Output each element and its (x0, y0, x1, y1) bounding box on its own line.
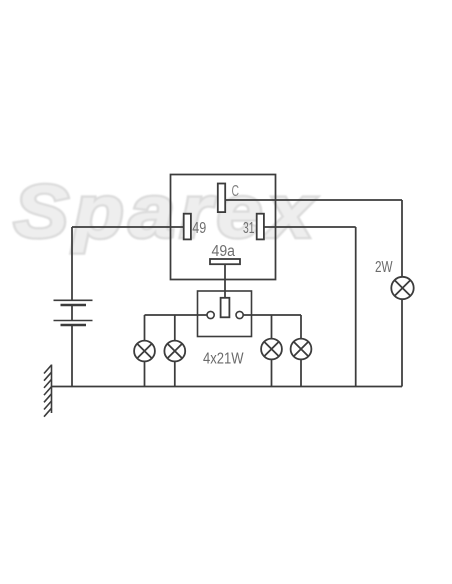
svg-text:49a: 49a (212, 243, 236, 260)
terminal 31 pin (257, 214, 264, 240)
svg-text:C: C (232, 183, 240, 200)
wire: switch left branch horizontal (145, 314, 208, 316)
wire: terminal C to right bus corner (225, 199, 402, 201)
wire: bottom bus (52, 386, 403, 388)
wire: battery negative down to bottom bus (71, 325, 73, 387)
wire: 49a down into switch (224, 264, 226, 298)
svg-text:31: 31 (243, 220, 255, 237)
terminal 49 pin (184, 214, 191, 240)
wire: right vertical from C wire down to bottom bus (through 2W lamp) (401, 200, 403, 387)
switch S1 box (198, 291, 252, 337)
wire: lamp L3 vertical drop (271, 315, 273, 387)
wire: switch right branch horizontal (243, 314, 301, 316)
wire: left vertical down to battery (71, 227, 73, 300)
wire: 31 vertical down to bottom bus (355, 227, 357, 387)
lamp L5 (2W) (391, 277, 413, 299)
ground (44, 365, 52, 417)
svg-text:4x21W: 4x21W (203, 351, 244, 368)
terminal 49a pin (210, 259, 240, 264)
relay box U1 (171, 175, 276, 280)
wire: lamp L1 vertical drop (144, 315, 146, 387)
wire: terminal 49 to left corner (72, 226, 184, 228)
lamp L4 (291, 339, 312, 360)
terminal C pin (218, 184, 225, 213)
lamp L1 (134, 341, 155, 362)
switch contact left (207, 311, 214, 318)
svg-text:2W: 2W (375, 259, 393, 276)
wire: lamp L2 vertical drop (174, 315, 176, 387)
wire: terminal 31 to right (264, 226, 356, 228)
wire: lamp L4 vertical drop (300, 315, 302, 387)
lamp L2 (164, 341, 185, 362)
wire: battery inter-cell link (71, 305, 73, 321)
battery B1 (54, 300, 93, 325)
switch contact right (236, 311, 243, 318)
switch actuator slot (221, 298, 230, 318)
svg-text:Sparex: Sparex (14, 171, 318, 253)
lamp L3 (261, 339, 282, 360)
svg-text:49: 49 (192, 220, 206, 237)
